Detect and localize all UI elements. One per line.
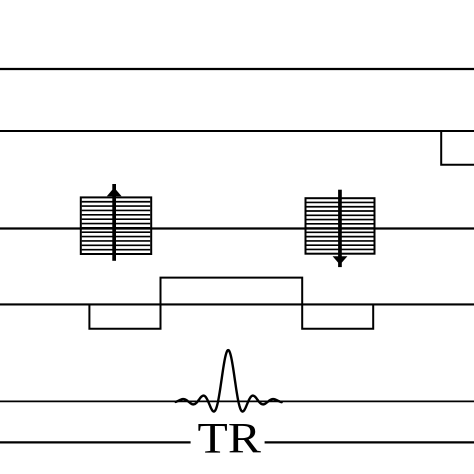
- axis line 5 (RF timeline): [0, 400, 474, 402]
- left gradient arrow head (up): [107, 190, 122, 197]
- right phase-encode gradient block hatching: [306, 202, 373, 249]
- svg-text:TR: TR: [198, 416, 261, 463]
- TR bracket line right: [265, 441, 474, 443]
- axis line 4 (readout gradient timeline): [0, 303, 474, 305]
- left phase-encode gradient block border: [81, 197, 151, 254]
- axis line 1 (top timeline): [0, 68, 474, 70]
- left phase-encode gradient block hatching: [82, 202, 151, 250]
- axis line 3 (phase-encode timeline): [0, 227, 474, 229]
- RF sinc pulse: [176, 350, 282, 411]
- right phase-encode gradient block border: [306, 198, 375, 254]
- negative pulse on line 2 at right edge: [441, 131, 474, 165]
- axis line 2 (second timeline): [0, 130, 474, 132]
- left gradient arrow shaft: [112, 184, 116, 261]
- right gradient arrow shaft: [338, 190, 342, 267]
- right gradient arrow head (down): [333, 256, 348, 262]
- TR bracket line left: [0, 441, 191, 443]
- readout gradient pulse train: [89, 278, 373, 329]
